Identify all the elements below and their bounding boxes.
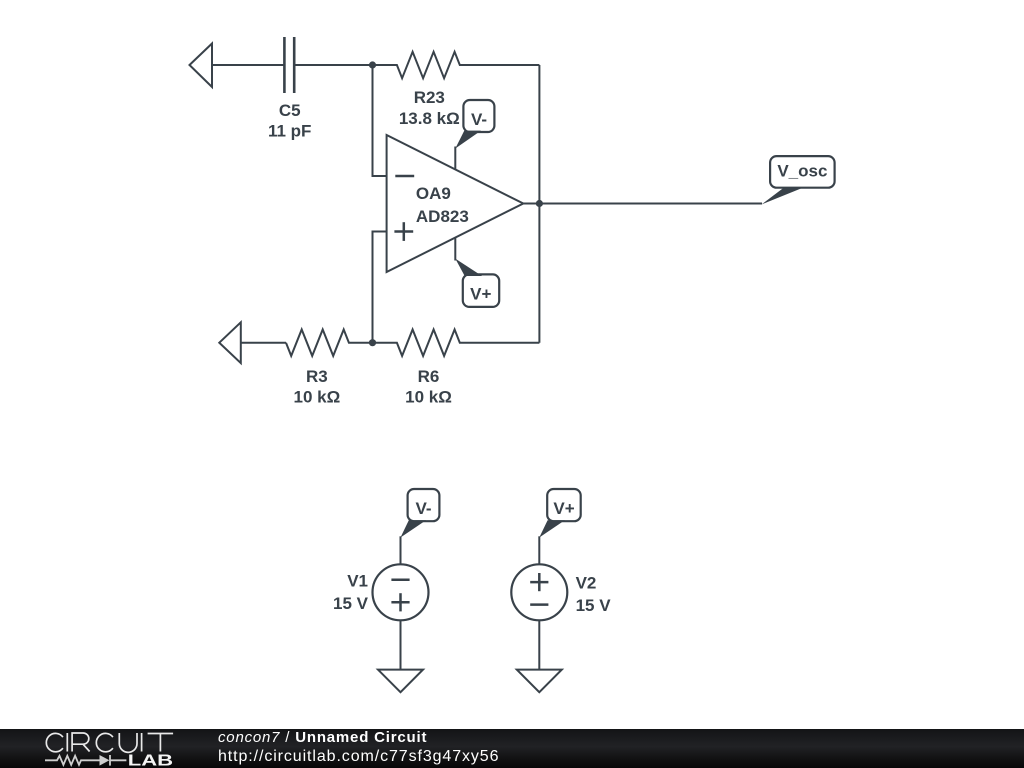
V2 plus sign (530, 573, 548, 591)
flag V+ tail (op-amp) (455, 259, 482, 276)
svg-text:V2: V2 (576, 573, 597, 592)
flag V+ tail (V2) (539, 520, 565, 537)
wire V+ flag to V2 (538, 536, 540, 564)
wire V+ power pin (454, 238, 456, 261)
wire V- flag to V1 (400, 536, 402, 564)
svg-text:10 kΩ: 10 kΩ (405, 387, 452, 406)
U (119, 733, 137, 752)
wire right feedback vertical (538, 65, 540, 343)
wire V- power pin (454, 147, 456, 171)
wire P1 to C5 (212, 64, 284, 66)
source V2 circle (511, 564, 567, 620)
CircuitLab logo (0, 729, 200, 768)
wire P2 to R3 (241, 342, 286, 344)
R (72, 733, 90, 752)
logo resistor-diode graphic (wire y local 31.3) (45, 755, 126, 766)
wire V1 to ground (400, 620, 402, 669)
node A junction (369, 61, 376, 68)
svg-text:V-: V- (471, 110, 487, 129)
I (66, 733, 68, 752)
svg-text:AD823: AD823 (416, 207, 469, 226)
flag V- box (op-amp) (463, 100, 494, 132)
flag V_osc tail (762, 188, 803, 205)
svg-text:R3: R3 (306, 367, 328, 386)
footer url line (218, 748, 499, 766)
C (46, 733, 63, 751)
footer title line (218, 729, 427, 746)
input port P2 (219, 322, 241, 363)
T (148, 734, 174, 752)
svg-text:V+: V+ (470, 285, 491, 304)
capacitor C5 (284, 37, 294, 93)
svg-text:11 pF: 11 pF (268, 122, 311, 141)
flag V- tail (op-amp) (455, 131, 481, 149)
op-amp minus sign (395, 175, 414, 178)
resistor R23 (373, 52, 540, 78)
V2 minus sign (530, 603, 548, 606)
svg-text:R23: R23 (414, 88, 445, 107)
ground G1 (378, 670, 423, 693)
I (141, 733, 143, 752)
flag V_osc box (770, 156, 835, 188)
svg-text:V_osc: V_osc (777, 162, 827, 181)
wire V2 to ground (538, 620, 540, 669)
wire node A down to inverting input (373, 65, 387, 176)
wire op-amp output (523, 203, 762, 205)
resistor R6 (373, 330, 540, 356)
svg-text:C5: C5 (279, 101, 301, 120)
op-amp plus sign (394, 222, 413, 241)
input port P1 (190, 44, 213, 88)
flag V- tail (V1) (401, 520, 427, 537)
logo word CIRCUIT (y in footer coords: 733-751.5 => local 4-22.5) (46, 733, 173, 752)
svg-text:LAB: LAB (128, 752, 173, 768)
svg-text:V1: V1 (347, 571, 368, 590)
flag V+ box (op-amp) (463, 274, 499, 307)
svg-text:OA9: OA9 (416, 184, 451, 203)
svg-text:V-: V- (415, 499, 431, 518)
svg-text:15 V: 15 V (576, 596, 612, 615)
op-amp OA9 (387, 135, 524, 272)
V1 minus sign (391, 578, 409, 581)
svg-text:10 kΩ: 10 kΩ (294, 387, 341, 406)
V1 plus sign (391, 593, 409, 611)
flag V+ box (V2) (547, 489, 581, 521)
C (96, 733, 113, 751)
svg-text:R6: R6 (418, 367, 440, 386)
source V1 circle (373, 564, 429, 620)
footer bar (0, 729, 1024, 768)
svg-text:13.8 kΩ: 13.8 kΩ (399, 109, 460, 128)
wire noninverting input to node B (373, 232, 387, 343)
resistor R3 (286, 330, 373, 356)
node OUT junction (536, 200, 543, 207)
ground G2 (517, 670, 562, 693)
node B junction (369, 339, 376, 346)
svg-text:15 V: 15 V (333, 594, 369, 613)
svg-text:V+: V+ (553, 499, 574, 518)
flag V- box (V1) (408, 489, 440, 521)
wire C5 to node A (294, 64, 372, 66)
